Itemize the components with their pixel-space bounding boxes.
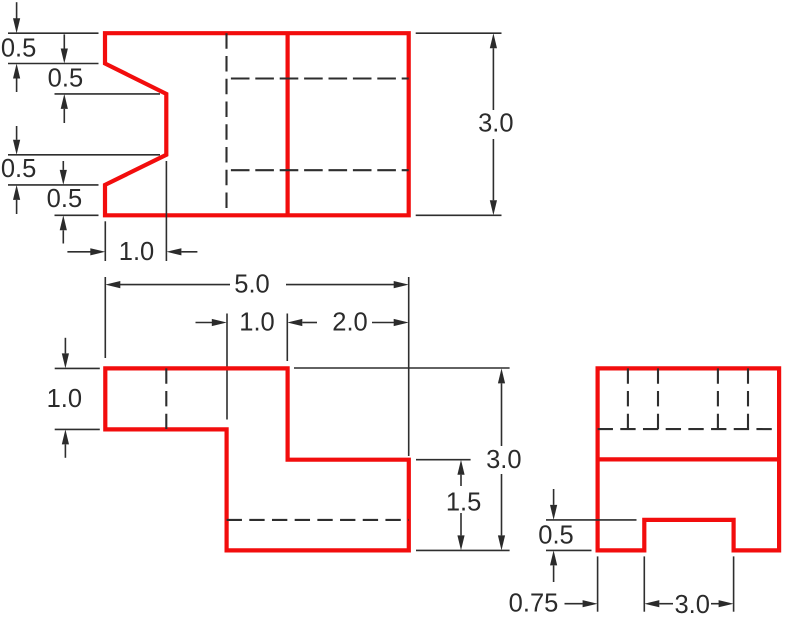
dimension 0.5 left of side view: extension lines [546, 519, 637, 521]
svg-text:0.5: 0.5 [47, 185, 82, 213]
dimension 1.0 left of front view: arrows [64, 338, 66, 354]
extension line y=215.3 left of top view [55, 214, 99, 216]
svg-text:0.5: 0.5 [1, 155, 36, 183]
front view outline (red visible edges) [105, 368, 409, 550]
dimension 1.0 left of front view: extension lines [55, 367, 100, 369]
top view outline (red visible edges) [105, 33, 409, 215]
extension line y=33.2 left of top view [8, 32, 99, 34]
side view mid horizontal edge (red) [598, 457, 780, 461]
top view hidden line vertical [225, 33, 227, 215]
svg-text:1.0: 1.0 [119, 238, 154, 266]
svg-text:3.0: 3.0 [486, 446, 521, 474]
dimension 1.5: extension line [416, 459, 471, 461]
dimension 5.0: extension lines [104, 277, 106, 358]
top view hidden line horizontal upper [227, 77, 409, 79]
dimension 1.0 upper front: extension lines [226, 314, 228, 420]
svg-text:1.0: 1.0 [239, 309, 274, 337]
extension line x=644.3 below side view [643, 556, 645, 611]
svg-text:3.0: 3.0 [478, 110, 513, 138]
svg-text:0.5: 0.5 [48, 65, 83, 93]
dimension 0.5 fourth: arrows [62, 161, 64, 170]
side view hidden line vertical 4 [747, 368, 749, 429]
dimension 3.0 right of top view: extension lines [416, 32, 502, 34]
extension line y=93.9 left of top view [55, 93, 161, 95]
dimension 0.5 second: arrows [63, 34, 65, 48]
extension line x=166.4 below top view [165, 161, 167, 261]
side view hidden line horizontal [598, 428, 780, 430]
svg-text:3.0: 3.0 [674, 591, 709, 619]
extension line y=154.8 left of top view [8, 154, 160, 156]
extension line x=105.3 below top view [104, 221, 106, 261]
svg-text:5.0: 5.0 [234, 271, 269, 299]
extension line x=597.6 below side view [597, 556, 599, 611]
dimension 1.0 upper front: outside left arrow [196, 322, 213, 324]
side view hidden line vertical 2 [657, 368, 659, 429]
svg-text:1.5: 1.5 [446, 489, 481, 517]
dimension 5.0: dim line and arrows [105, 281, 120, 288]
dimension 3.0 below side view: right line and arrow [711, 603, 720, 605]
dimension 0.5 third: arrows [16, 126, 18, 140]
dimension 3.0 right of top view: dim line and arrows [490, 33, 497, 48]
side view outline (red visible edges) [598, 368, 780, 550]
dimension 0.5 first: arrows [16, 2, 18, 19]
front view hidden line vertical [165, 368, 167, 429]
dimension 0.5 left of side view: arrows [553, 489, 555, 505]
dimension 3.0 right of front view: dim line and arrows [498, 368, 505, 383]
dimension 2.0: right line and arrow [372, 322, 395, 324]
dimension 2.0: left arrow and line [287, 319, 302, 326]
svg-text:0.5: 0.5 [538, 521, 573, 549]
dimension 1.0 below top view: left arrow [67, 251, 90, 253]
svg-text:0.75: 0.75 [509, 590, 559, 618]
extension line x=733.6 below side view [733, 556, 735, 611]
dimension 3.0 right of front view: extension lines [294, 367, 510, 369]
top view vertical edge line (red divider) [286, 33, 290, 215]
top view hidden line horizontal lower [227, 169, 409, 171]
extension line y=184.9 left of top view [8, 184, 99, 186]
extension line y=63.5 left of top view [8, 63, 99, 65]
svg-text:2.0: 2.0 [332, 308, 367, 336]
front view hidden line horizontal [227, 519, 409, 521]
dimension 0.75: arrow [565, 603, 583, 605]
dimension 1.0 below top view: right arrow [166, 248, 181, 255]
side view hidden line vertical 3 [717, 368, 719, 429]
dimension 3.0 below side view: left arrow and line [644, 600, 659, 607]
side view hidden line vertical 1 [627, 368, 629, 429]
dimension 1.5: dim line and arrows [457, 460, 464, 475]
svg-text:0.5: 0.5 [1, 34, 36, 62]
svg-text:1.0: 1.0 [47, 385, 82, 413]
